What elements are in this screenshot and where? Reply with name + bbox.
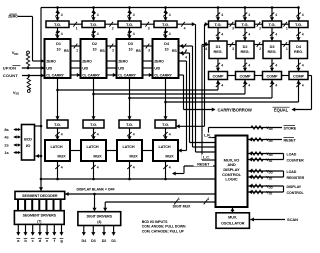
wire: counter D1 output down to latch T.G. (4 bits) bbox=[57, 78, 59, 120]
svg-text:4: 4 bbox=[61, 32, 63, 36]
svg-text:T.G.: T.G. bbox=[215, 22, 222, 27]
wire: D4 carry down to CARRY/BORROW output bbox=[183, 75, 185, 110]
wire: T.G. 3 to T.G. 4 bus segment bbox=[141, 23, 154, 25]
svg-text:4: 4 bbox=[133, 133, 135, 137]
pin segment output b (active low) bbox=[25, 224, 27, 234]
svg-text:g: g bbox=[60, 238, 63, 243]
svg-text:2: 2 bbox=[259, 47, 261, 51]
wire: register 2-3 RS segment bbox=[254, 44, 263, 46]
svg-text:4: 4 bbox=[97, 166, 99, 170]
wire: D4 CARRY output bbox=[179, 74, 184, 76]
wire: left data bus rail bbox=[40, 8, 42, 191]
wire: control bundle line 1 bbox=[186, 61, 188, 151]
block MUX I/O AND DISPLAY CONTROL LOGIC bbox=[216, 136, 248, 208]
pin segment output c (active low) bbox=[32, 224, 34, 234]
wire: register D3 to comparator 3 (4 bits) bbox=[271, 59, 273, 72]
svg-text:VSS: VSS bbox=[266, 175, 272, 181]
wire: top 4-bit data bus bbox=[41, 7, 299, 9]
svg-text:T.G.: T.G. bbox=[126, 22, 133, 27]
wire: comparator chain 1-2 bbox=[228, 75, 236, 77]
svg-text:REG.: REG. bbox=[294, 50, 303, 54]
wire: STORE to load register logic bbox=[208, 128, 210, 138]
svg-text:EQUAL: EQUAL bbox=[274, 107, 289, 112]
svg-text:CONTROL: CONTROL bbox=[287, 191, 305, 195]
svg-text:DIGIT DRIVERS: DIGIT DRIVERS bbox=[87, 215, 113, 219]
svg-text:CL CARRY: CL CARRY bbox=[118, 74, 136, 78]
svg-text:COMP: COMP bbox=[293, 74, 305, 78]
svg-text:T.G.: T.G. bbox=[295, 22, 302, 27]
node: bus junction above T.G. 4 bbox=[164, 6, 167, 9]
wire: STORE input line bbox=[209, 127, 283, 129]
svg-text:4: 4 bbox=[221, 84, 223, 88]
wire: counter D1 output to comparator 1 bbox=[58, 89, 219, 91]
wire: control bundle line 2 bbox=[189, 53, 191, 143]
svg-text:3: 3 bbox=[148, 27, 150, 31]
wire: T.G. 3 to counter D3 (4 bits) bbox=[129, 28, 131, 40]
svg-text:4: 4 bbox=[169, 166, 171, 170]
svg-text:D1: D1 bbox=[216, 45, 221, 49]
svg-text:2: 2 bbox=[112, 49, 114, 53]
svg-text:ZERO: ZERO bbox=[8, 15, 18, 19]
node: resistor to UP/DN line bbox=[27, 67, 30, 70]
svg-text:4: 4 bbox=[248, 13, 250, 17]
svg-text:4: 4 bbox=[185, 56, 187, 60]
wire: bus to register T.G. 4 (4 bits) bbox=[298, 8, 300, 22]
svg-text:ZERO: ZERO bbox=[154, 60, 164, 64]
svg-text:2: 2 bbox=[259, 27, 261, 31]
svg-text:4: 4 bbox=[61, 133, 63, 137]
svg-text:VSS: VSS bbox=[266, 157, 272, 163]
wire: bus to register T.G. 2 (4 bits) bbox=[244, 8, 246, 22]
label L.R. bbox=[203, 133, 213, 138]
pin segment output a (active low) bbox=[17, 224, 19, 234]
svg-text:10: 10 bbox=[92, 48, 96, 52]
wire: T.G. 2 to T.G. 3 bus segment bbox=[105, 23, 118, 25]
wire: RS line between D3 and D4 bbox=[143, 45, 153, 47]
wire: T.G. 1 to counter D1 (4 bits) bbox=[57, 28, 59, 40]
svg-text:a: a bbox=[17, 238, 20, 243]
wire: COUNT input to counter D1 CL bbox=[22, 75, 44, 77]
pin LOAD REGISTER input with pull resistors bbox=[248, 170, 283, 172]
block DIGIT DRIVERS (4) bbox=[78, 212, 121, 226]
svg-text:RS: RS bbox=[172, 49, 177, 53]
wire: register D4 to comparator 4 (4 bits) bbox=[298, 59, 300, 72]
wire: register 3-4 RS segment bbox=[281, 44, 290, 46]
svg-text:COUNTER: COUNTER bbox=[287, 159, 305, 163]
wire: RS line between D1 and D2 bbox=[71, 45, 81, 47]
svg-text:VDD: VDD bbox=[12, 50, 19, 56]
svg-text:D2: D2 bbox=[102, 239, 107, 243]
svg-text:4: 4 bbox=[221, 13, 223, 17]
wire: D4 RS line to control bundle (4) bbox=[179, 45, 193, 47]
svg-text:LATCH: LATCH bbox=[50, 145, 62, 149]
svg-text:COMP: COMP bbox=[267, 74, 279, 78]
wire: bus to T.G. 4 (4 bits) bbox=[165, 8, 167, 22]
wire: ZERO line between D2 and D3 bbox=[107, 60, 117, 62]
svg-text:COMP: COMP bbox=[213, 74, 225, 78]
svg-text:d: d bbox=[39, 238, 42, 243]
block SEGMENT DECODER bbox=[15, 191, 65, 199]
svg-text:D3: D3 bbox=[270, 45, 275, 49]
transmission gate T.G. (register 1) bbox=[209, 21, 228, 28]
svg-text:4: 4 bbox=[184, 27, 186, 31]
wire: bus to T.G. 2 (4 bits) bbox=[93, 8, 95, 22]
svg-text:MUX: MUX bbox=[129, 154, 138, 158]
svg-text:T.G.: T.G. bbox=[269, 22, 276, 27]
pin digit output D2 bbox=[103, 226, 105, 235]
decade counter D2 (divide by 10) bbox=[81, 39, 107, 78]
register D3 REG. bbox=[263, 41, 281, 59]
node: bus junction above T.G. 1 bbox=[56, 6, 59, 9]
svg-text:COM. CATHODE: PULL UP: COM. CATHODE: PULL UP bbox=[142, 230, 185, 234]
wire: D1 CARRY to D2 CL bbox=[71, 74, 80, 76]
svg-text:CARRY/BORROW: CARRY/BORROW bbox=[218, 107, 252, 112]
svg-text:4: 4 bbox=[302, 13, 304, 17]
wire: counter D3 output down to latch T.G. (4 bits) bbox=[129, 78, 131, 120]
node: bus junction above register T.G. 2 bbox=[244, 6, 247, 9]
svg-text:MUX: MUX bbox=[93, 154, 102, 158]
svg-text:4: 4 bbox=[248, 33, 250, 37]
wire: ZERO line between D1 and D2 bbox=[71, 60, 81, 62]
wire: latch mux chain 2-3 bbox=[106, 150, 117, 152]
svg-text:10: 10 bbox=[128, 48, 132, 52]
wire: register T.G. 4 to register D4 (4 bits) bbox=[298, 28, 300, 42]
svg-text:4: 4 bbox=[169, 13, 171, 17]
svg-text:3: 3 bbox=[232, 47, 234, 51]
svg-text:D2: D2 bbox=[243, 45, 248, 49]
transmission gate T.G. (latch 4) bbox=[155, 120, 176, 128]
svg-text:LATCH: LATCH bbox=[158, 145, 170, 149]
wire: bundle to register T.G. 1 input (4) bbox=[205, 23, 208, 25]
pin LOAD COUNTER input with pull resistors bbox=[248, 153, 283, 155]
svg-text:T.G.: T.G. bbox=[162, 22, 169, 27]
svg-text:f: f bbox=[54, 238, 56, 243]
svg-text:4: 4 bbox=[275, 64, 277, 68]
svg-text:2s: 2s bbox=[4, 143, 9, 148]
svg-text:MUX: MUX bbox=[57, 154, 66, 158]
terminal VDD bbox=[27, 51, 30, 54]
transmission gate T.G. (counter 2) bbox=[82, 21, 105, 28]
wire: latch 2 output to display bus (4 bits) bbox=[93, 161, 95, 179]
label RESET bbox=[194, 161, 213, 166]
wire: bus to register T.G. 1 (4 bits) bbox=[217, 8, 219, 22]
wire: RESET input line bbox=[248, 139, 282, 141]
svg-text:REG.: REG. bbox=[268, 50, 277, 54]
transmission gate T.G. (latch 2) bbox=[83, 120, 104, 128]
svg-text:D3: D3 bbox=[128, 42, 133, 46]
wire: comparator chain 2-3 bbox=[255, 75, 263, 77]
block MUX OSCILLATOR bbox=[216, 213, 249, 229]
svg-text:4: 4 bbox=[97, 13, 99, 17]
wire: latch T.G. 3 to latch (4 bits) bbox=[129, 128, 131, 140]
svg-text:4: 4 bbox=[302, 64, 304, 68]
svg-text:10: 10 bbox=[56, 48, 60, 52]
wire: control bundle line 4 bbox=[195, 24, 197, 152]
svg-text:COUNT: COUNT bbox=[3, 73, 19, 78]
svg-text:4: 4 bbox=[275, 33, 277, 37]
svg-text:2: 2 bbox=[112, 27, 114, 31]
node: resistor to COUNT line bbox=[28, 74, 31, 77]
transmission gate T.G. (register 2) bbox=[236, 21, 255, 28]
svg-text:U/D: U/D bbox=[154, 67, 160, 71]
svg-text:D1: D1 bbox=[111, 239, 116, 243]
wire: comparator chain 3-4 bbox=[282, 75, 290, 77]
wire: comparator chain to EQUAL output bbox=[308, 75, 312, 77]
wire: D2 CARRY to D3 CL bbox=[107, 74, 116, 76]
wire: T.G. 1 to T.G. 2 bus segment bbox=[69, 23, 82, 25]
wire: U/D line between D1 and D2 bbox=[71, 67, 81, 69]
wire: bus to T.G. 3 (4 bits) bbox=[129, 8, 131, 22]
wire: register T.G. 3 to register D3 (4 bits) bbox=[271, 28, 273, 42]
resistor pull-up STORE bbox=[251, 126, 263, 129]
wire: RESET line from control logic bbox=[184, 165, 216, 167]
block SEGMENT DRIVERS (7) bbox=[14, 211, 64, 225]
svg-text:1: 1 bbox=[286, 27, 288, 31]
register D2 REG. bbox=[236, 41, 254, 59]
node: bus junction above register T.G. 1 bbox=[217, 6, 220, 9]
wire: bundle to register D1 RS input (4) bbox=[202, 44, 208, 46]
svg-text:4: 4 bbox=[248, 64, 250, 68]
svg-text:4: 4 bbox=[205, 47, 207, 51]
node: display blank branch to digit drivers bbox=[93, 193, 96, 196]
wire: counter D2 output to comparator 2 bbox=[94, 93, 246, 95]
svg-text:LATCH: LATCH bbox=[122, 145, 134, 149]
svg-text:ZERO: ZERO bbox=[46, 60, 56, 64]
wire: bundle to latch mux 4 select bbox=[179, 150, 187, 152]
wire: U/D line between D2 and D3 bbox=[107, 67, 117, 69]
svg-text:RS: RS bbox=[100, 49, 105, 53]
wire: D3 CARRY to D4 CL bbox=[143, 74, 152, 76]
svg-text:4: 4 bbox=[207, 197, 209, 201]
wire: latch mux chain 1-2 bbox=[70, 150, 81, 152]
wire: blank line down to digit drivers bbox=[94, 194, 96, 211]
wire: T.G. 4 bus segment to control bundle bbox=[177, 23, 195, 25]
svg-text:4: 4 bbox=[97, 32, 99, 36]
svg-text:4: 4 bbox=[248, 84, 250, 88]
svg-text:ZERO: ZERO bbox=[118, 60, 128, 64]
transmission gate T.G. (latch 1) bbox=[47, 120, 68, 128]
svg-text:4: 4 bbox=[133, 32, 135, 36]
svg-text:4: 4 bbox=[97, 133, 99, 137]
svg-text:SEGMENT DECODER: SEGMENT DECODER bbox=[22, 194, 58, 198]
svg-text:UP/DN: UP/DN bbox=[3, 66, 16, 71]
decade counter D1 (divide by 10) bbox=[45, 39, 71, 78]
svg-text:DIGIT MUX: DIGIT MUX bbox=[173, 205, 191, 209]
wire: UP/DN input to counter D1 U/D bbox=[22, 67, 44, 69]
svg-text:4: 4 bbox=[133, 166, 135, 170]
register D1 REG. bbox=[209, 41, 227, 59]
svg-text:D2: D2 bbox=[92, 42, 97, 46]
svg-text:T.G.: T.G. bbox=[54, 122, 61, 127]
wire: register T.G. 1 to register D1 (4 bits) bbox=[217, 28, 219, 42]
svg-text:U/D: U/D bbox=[118, 67, 124, 71]
svg-text:OSCILLATOR: OSCILLATOR bbox=[221, 221, 245, 225]
svg-text:CL CARRY: CL CARRY bbox=[46, 74, 64, 78]
wire: latch mux chain 3-4 bbox=[142, 150, 153, 152]
node: bus junction above register T.G. 4 bbox=[297, 6, 300, 9]
svg-text:c: c bbox=[32, 238, 35, 243]
svg-text:RESET: RESET bbox=[197, 163, 210, 167]
svg-text:4: 4 bbox=[221, 64, 223, 68]
wire: oscillator to control logic bbox=[232, 208, 234, 213]
svg-text:10: 10 bbox=[164, 48, 168, 52]
svg-text:4: 4 bbox=[178, 197, 180, 201]
wire: bundle to latch T.G. row enable bbox=[204, 24, 206, 126]
wire: latch 4 output to display bus (4 bits) bbox=[165, 161, 167, 179]
svg-text:4: 4 bbox=[61, 166, 63, 170]
wire: T.G. 4 to counter D4 (4 bits) bbox=[165, 28, 167, 40]
wire: control bundle line 3 bbox=[192, 46, 194, 147]
svg-text:DISPLAY: DISPLAY bbox=[287, 185, 302, 189]
svg-text:T.G.: T.G. bbox=[242, 22, 249, 27]
wire: latch T.G. 4 to latch (4 bits) bbox=[165, 128, 167, 140]
svg-text:4: 4 bbox=[169, 133, 171, 137]
wire: latch T.G. 2 to latch (4 bits) bbox=[93, 128, 95, 140]
svg-text:b: b bbox=[24, 238, 27, 243]
comparator COMP 3 bbox=[263, 72, 282, 80]
svg-text:4: 4 bbox=[133, 13, 135, 17]
resistor pull-up on UP/DN bbox=[26, 54, 29, 66]
wire: counter D4 output down to latch T.G. (4 bits) bbox=[165, 78, 167, 120]
svg-text:4: 4 bbox=[169, 32, 171, 36]
node: bus junction above register T.G. 3 bbox=[271, 6, 274, 9]
wire: ZERO pin to counter D1 zero line bbox=[18, 15, 33, 17]
wire: display blank control to segment decoder bbox=[66, 193, 216, 195]
wire: digit mux lines from control logic to digit drivers (4) bbox=[105, 201, 215, 203]
decade counter D4 (divide by 10) bbox=[153, 39, 179, 78]
transmission gate T.G. (counter 1) bbox=[46, 21, 69, 28]
svg-text:1: 1 bbox=[286, 47, 288, 51]
svg-text:RESET: RESET bbox=[284, 138, 297, 142]
svg-text:REGISTER: REGISTER bbox=[287, 176, 305, 180]
wire: D4 preset line to control bundle (4) bbox=[179, 52, 190, 54]
svg-text:T.G.: T.G. bbox=[126, 122, 133, 127]
resistor pull-up RESET bbox=[251, 138, 263, 141]
svg-text:VSS: VSS bbox=[266, 190, 272, 196]
transmission gate T.G. (counter 4) bbox=[154, 21, 177, 28]
svg-text:T.G.: T.G. bbox=[162, 122, 169, 127]
wire: U/D line between D3 and D4 bbox=[143, 67, 153, 69]
svg-text:MUX: MUX bbox=[165, 154, 174, 158]
svg-text:DISPLAY BLANK = OFF: DISPLAY BLANK = OFF bbox=[77, 188, 116, 192]
svg-text:COMP: COMP bbox=[240, 74, 252, 78]
wire: counter D3 output to comparator 3 bbox=[130, 97, 273, 99]
svg-text:1s: 1s bbox=[4, 150, 9, 155]
wire: ZERO line between D3 and D4 bbox=[143, 60, 153, 62]
svg-text:LOAD: LOAD bbox=[287, 170, 297, 174]
svg-text:VDD: VDD bbox=[266, 125, 273, 131]
svg-text:D1: D1 bbox=[56, 42, 61, 46]
wire: latched BCD bus to segment decoder and control logic bbox=[41, 178, 216, 180]
comparator COMP 2 bbox=[236, 72, 255, 80]
resistor pull-down on COUNT bbox=[28, 76, 30, 78]
pin digit output D3 bbox=[92, 226, 94, 235]
svg-text:CL CARRY: CL CARRY bbox=[154, 74, 172, 78]
svg-text:3: 3 bbox=[232, 27, 234, 31]
svg-text:4: 4 bbox=[302, 84, 304, 88]
svg-text:D4: D4 bbox=[82, 239, 88, 243]
wire: counter D4 output to comparator 4 bbox=[166, 101, 299, 103]
pin digit output D4 bbox=[83, 226, 85, 235]
svg-text:LOGIC: LOGIC bbox=[225, 177, 237, 182]
svg-text:D3: D3 bbox=[91, 239, 96, 243]
wire: T.G. 2 to counter D2 (4 bits) bbox=[93, 28, 95, 40]
wire: BCD I/O to data bus (upper) bbox=[35, 125, 42, 127]
terminal VSS bbox=[27, 90, 30, 93]
svg-text:STORE: STORE bbox=[284, 126, 297, 130]
svg-text:SCAN: SCAN bbox=[287, 217, 298, 222]
wire: BCD I/O to data bus (lower) bbox=[35, 155, 41, 157]
latch and multiplexer LATCH MUX 1 bbox=[45, 140, 70, 161]
wire: register T.G. 2 to register D2 (4 bits) bbox=[244, 28, 246, 42]
wire: register T.G. 3-4 bus segment bbox=[282, 23, 290, 25]
svg-text:CL CARRY: CL CARRY bbox=[82, 74, 100, 78]
svg-text:L.C.: L.C. bbox=[203, 156, 210, 160]
wire: SCAN input to oscillator bbox=[250, 219, 285, 221]
svg-text:ZERO: ZERO bbox=[82, 60, 92, 64]
block BCD I/O bbox=[22, 125, 35, 161]
svg-text:RS: RS bbox=[64, 49, 69, 53]
wire: latch 3 output to display bus (4 bits) bbox=[129, 161, 131, 179]
transmission gate T.G. (register 3) bbox=[263, 21, 282, 28]
svg-text:VSS: VSS bbox=[13, 90, 19, 96]
pin DISPLAY CONTROL input with pull resistors bbox=[248, 185, 283, 187]
wire: segment decoder to segment drivers (7 lines) bbox=[17, 199, 19, 211]
wire: RS line between D2 and D3 bbox=[107, 45, 117, 47]
svg-text:MUX.: MUX. bbox=[228, 216, 237, 220]
svg-text:REG.: REG. bbox=[241, 50, 250, 54]
comparator COMP 1 bbox=[209, 72, 228, 80]
wire: latch 1 output to display bus (4 bits) bbox=[57, 161, 59, 179]
transmission gate T.G. (counter 3) bbox=[118, 21, 141, 28]
svg-text:3: 3 bbox=[148, 49, 150, 53]
svg-text:4: 4 bbox=[302, 33, 304, 37]
svg-text:8s: 8s bbox=[4, 127, 9, 132]
pin segment output e (active low) bbox=[46, 224, 48, 234]
svg-text:L.R.: L.R. bbox=[204, 134, 211, 138]
decade counter D3 (divide by 10) bbox=[117, 39, 143, 78]
svg-text:T.G.: T.G. bbox=[90, 22, 97, 27]
wire: bus to register T.G. 3 (4 bits) bbox=[271, 8, 273, 22]
latch and multiplexer LATCH MUX 4 bbox=[153, 140, 178, 161]
svg-text:I/O: I/O bbox=[26, 144, 31, 148]
latch and multiplexer LATCH MUX 3 bbox=[117, 140, 142, 161]
transmission gate T.G. (register 4) bbox=[289, 21, 308, 28]
pin segment output f (active low) bbox=[53, 224, 55, 234]
node: bus junction above T.G. 2 bbox=[92, 6, 95, 9]
svg-text:U/D: U/D bbox=[82, 67, 88, 71]
wire: register D1 to comparator 1 (4 bits) bbox=[217, 59, 219, 72]
svg-text:1: 1 bbox=[76, 49, 78, 53]
svg-text:4: 4 bbox=[275, 13, 277, 17]
pin segment output g (active low) bbox=[61, 224, 63, 234]
svg-text:T.G.: T.G. bbox=[54, 22, 61, 27]
transmission gate T.G. (latch 3) bbox=[119, 120, 140, 128]
comparator COMP 4 bbox=[289, 72, 308, 80]
wire: latch T.G. 1 to latch (4 bits) bbox=[57, 128, 59, 140]
wire: register T.G. 2-3 bus segment bbox=[255, 23, 263, 25]
register D4 REG. bbox=[290, 41, 308, 59]
pin digit output D1 bbox=[113, 226, 115, 235]
svg-text:REG.: REG. bbox=[214, 50, 223, 54]
wire: register T.G. 1-2 bus segment bbox=[228, 23, 236, 25]
label L.C. bbox=[202, 154, 212, 159]
wire: control bundle line 5 (load counter) bbox=[201, 45, 203, 161]
svg-text:LATCH: LATCH bbox=[86, 145, 98, 149]
svg-text:BCD I/O INPUTS: BCD I/O INPUTS bbox=[142, 220, 168, 224]
latch and multiplexer LATCH MUX 2 bbox=[81, 140, 106, 161]
svg-text:VDD: VDD bbox=[266, 137, 273, 143]
